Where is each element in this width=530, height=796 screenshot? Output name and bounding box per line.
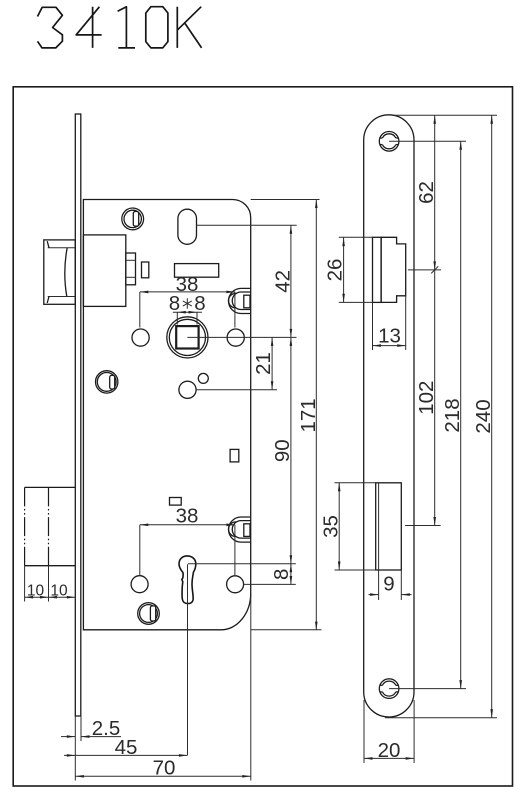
svg-text:8: 8 xyxy=(194,292,205,315)
svg-text:9: 9 xyxy=(383,573,394,596)
svg-text:102: 102 xyxy=(415,381,438,415)
svg-text:26: 26 xyxy=(324,259,347,282)
svg-text:62: 62 xyxy=(415,181,438,204)
svg-text:8: 8 xyxy=(270,569,293,580)
svg-text:21: 21 xyxy=(252,352,275,375)
svg-text:90: 90 xyxy=(271,439,294,462)
svg-text:10: 10 xyxy=(27,583,45,600)
svg-text:38: 38 xyxy=(176,505,199,528)
svg-text:8: 8 xyxy=(169,292,180,315)
svg-text:45: 45 xyxy=(115,736,138,759)
svg-text:13: 13 xyxy=(378,325,401,348)
svg-text:20: 20 xyxy=(378,739,401,762)
svg-text:171: 171 xyxy=(297,398,320,432)
svg-text:240: 240 xyxy=(472,399,495,433)
svg-text:42: 42 xyxy=(271,270,294,293)
svg-text:10: 10 xyxy=(50,583,68,600)
svg-text:70: 70 xyxy=(153,757,176,780)
svg-text:35: 35 xyxy=(319,515,342,538)
svg-text:218: 218 xyxy=(441,398,464,432)
